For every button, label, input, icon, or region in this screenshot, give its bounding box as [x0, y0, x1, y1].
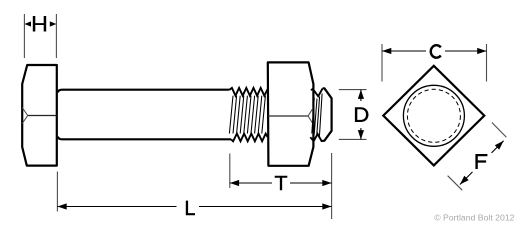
dimension H line and arrows: [24, 21, 56, 26]
thread crest zigzag top section 2: [311, 88, 323, 96]
dimension F line and arrows: [460, 141, 504, 185]
square nut face view (diamond): [383, 66, 484, 166]
thread crest zigzag top section 1: [230, 88, 268, 96]
thread hatching section 1: [229, 96, 265, 134]
head facet line: [28, 115, 57, 117]
shank top line: [58, 90, 230, 93]
dimension L extension line: [56, 172, 58, 212]
bolt circle solid: [403, 85, 464, 146]
nut facet line: [268, 115, 308, 117]
svg-text:© Portland Bolt 2012: © Portland Bolt 2012: [434, 213, 514, 223]
label T: [275, 176, 288, 191]
head chamfer vee: [22, 108, 28, 124]
thread crest zigzag bottom section 1: [231, 134, 268, 142]
dimension L line and arrows: [57, 203, 331, 209]
nut chamfer vee: [308, 108, 313, 125]
dimension D line and arrows: [358, 90, 364, 140]
bolt circle dashed: [407, 89, 460, 142]
nut (square nut side view): [268, 62, 314, 165]
label C: [431, 45, 441, 58]
dimension D extension lines: [339, 90, 367, 140]
label F: [475, 154, 487, 169]
dimension T extension lines: [230, 153, 332, 219]
dimension H extension lines: [24, 14, 56, 58]
dimension C extension lines: [382, 44, 487, 82]
label L: [186, 201, 195, 216]
thread crest zigzag bottom section 2: [310, 134, 323, 141]
thread hatching section 2: [312, 94, 322, 137]
dimension T line and arrows: [230, 180, 332, 186]
dimension F extension ticks: [448, 123, 507, 191]
label D: [355, 107, 369, 122]
bolt head (hex head side view): [22, 65, 57, 166]
shank bottom line: [58, 137, 231, 140]
label H: [33, 16, 46, 32]
dimension C line and arrows: [382, 48, 487, 54]
bolt tip chamfered end: [323, 88, 332, 141]
